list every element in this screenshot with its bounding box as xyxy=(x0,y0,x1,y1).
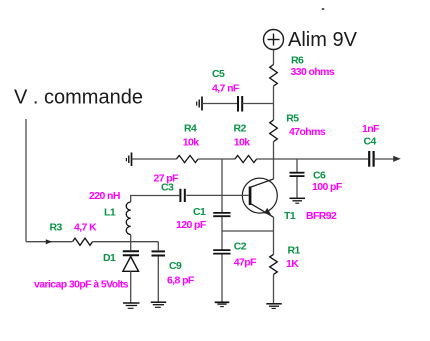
ground (C6) xyxy=(290,198,306,203)
svg-text:C2: C2 xyxy=(234,241,247,253)
wire L1 to C3 xyxy=(131,196,180,203)
svg-text:1K: 1K xyxy=(286,258,299,270)
transistor T1 emitter arrow xyxy=(264,208,271,215)
svg-text:V . commande: V . commande xyxy=(14,87,143,109)
svg-text:120 pF: 120 pF xyxy=(176,219,207,231)
input arrow xyxy=(46,239,52,244)
svg-text:R6: R6 xyxy=(291,54,304,66)
wire C5 to rail xyxy=(242,103,273,105)
svg-text:220 nH: 220 nH xyxy=(89,190,120,202)
wire input vertical xyxy=(25,119,27,242)
svg-text:BFR92: BFR92 xyxy=(306,210,337,222)
resistor R2 xyxy=(235,155,257,162)
wire divider node down through base xyxy=(221,159,223,212)
svg-text:100 pF: 100 pF xyxy=(312,181,343,193)
svg-text:47ohms: 47ohms xyxy=(289,126,326,138)
wire C2 to ground xyxy=(221,254,223,302)
resistor R5 xyxy=(270,120,278,142)
svg-text:R5: R5 xyxy=(286,113,299,125)
wire C9 to ground xyxy=(157,256,159,301)
svg-text:4,7 nF: 4,7 nF xyxy=(212,83,240,95)
capacitor C5 xyxy=(238,96,242,112)
svg-text:10k: 10k xyxy=(183,137,199,149)
svg-text:47pF: 47pF xyxy=(234,257,257,269)
svg-text:C3: C3 xyxy=(161,182,174,194)
wire ground to C5 xyxy=(202,103,237,105)
transistor T1 collector lead xyxy=(251,179,274,187)
capacitor C1 xyxy=(213,213,230,216)
inductor L1 xyxy=(126,202,131,234)
svg-text:R2: R2 xyxy=(234,123,247,135)
output arrow xyxy=(393,156,401,162)
resistor R3 xyxy=(73,238,93,245)
wire tank node to D1 xyxy=(130,242,132,250)
svg-text:D1: D1 xyxy=(103,252,116,264)
wire power to R6 xyxy=(273,50,275,65)
wire R4 to R2 xyxy=(198,158,235,160)
resistor R6 xyxy=(270,65,278,87)
svg-text:6,8 pF: 6,8 pF xyxy=(167,275,195,287)
capacitor C3 xyxy=(180,189,184,202)
transistor T1 body xyxy=(242,178,277,213)
wire ground to R4 xyxy=(132,158,177,160)
wire C1 to C2 xyxy=(221,217,223,250)
svg-text:C1: C1 xyxy=(193,206,206,218)
capacitor C6 xyxy=(290,173,305,176)
wire L1 to tank node xyxy=(130,235,132,242)
stray dot xyxy=(322,8,324,10)
resistor R4 xyxy=(177,155,199,162)
wire R3 to C9 bend xyxy=(93,241,159,243)
ground (C2) xyxy=(215,302,230,306)
wire C4 to output arrow xyxy=(374,158,397,160)
wire R6 to R5 xyxy=(273,86,275,120)
svg-text:1nF: 1nF xyxy=(362,123,380,135)
wire collector xyxy=(273,159,275,179)
wire R2 to C4 xyxy=(257,158,368,160)
svg-text:R4: R4 xyxy=(184,123,197,135)
wire input horizontal xyxy=(26,241,72,243)
transistor T1 base bar xyxy=(249,187,252,206)
svg-text:330 ohms: 330 ohms xyxy=(291,66,335,78)
capacitor C4 xyxy=(369,151,373,167)
capacitor C2 xyxy=(213,250,230,254)
svg-text:T1: T1 xyxy=(284,210,296,222)
ground (C5) xyxy=(197,97,202,111)
svg-text:10k: 10k xyxy=(234,137,250,149)
svg-text:C5: C5 xyxy=(212,68,225,80)
transistor T1 emitter lead xyxy=(251,204,274,217)
wire R1 to ground xyxy=(273,274,275,303)
ground (C9) xyxy=(151,302,166,307)
wire base xyxy=(186,194,248,196)
varicap D1 xyxy=(123,251,139,271)
svg-text:R1: R1 xyxy=(288,245,301,257)
svg-text:C6: C6 xyxy=(313,170,326,182)
power symbol Alim 9V xyxy=(264,30,284,50)
ground (main wire left) xyxy=(126,153,131,167)
svg-text:4,7 K: 4,7 K xyxy=(74,222,97,234)
wire node to C6 xyxy=(296,159,298,172)
svg-text:C9: C9 xyxy=(169,260,182,272)
svg-text:Alim 9V: Alim 9V xyxy=(288,29,358,51)
svg-text:L1: L1 xyxy=(104,207,116,219)
capacitor C9 xyxy=(152,251,166,255)
wire emitter tie xyxy=(222,230,274,232)
svg-text:R3: R3 xyxy=(50,222,63,234)
wire D1 to ground xyxy=(130,271,132,302)
wire bend to C9 xyxy=(157,242,159,251)
ground (D1) xyxy=(123,303,140,308)
svg-text:C4: C4 xyxy=(364,135,377,147)
ground (R1) xyxy=(266,304,282,309)
svg-text:varicap 30pF à 5Volts: varicap 30pF à 5Volts xyxy=(34,279,129,291)
wire C6 to ground xyxy=(296,177,298,198)
resistor R1 xyxy=(270,254,278,274)
wire R5 to main node xyxy=(273,142,275,159)
wire emitter down xyxy=(273,217,275,254)
